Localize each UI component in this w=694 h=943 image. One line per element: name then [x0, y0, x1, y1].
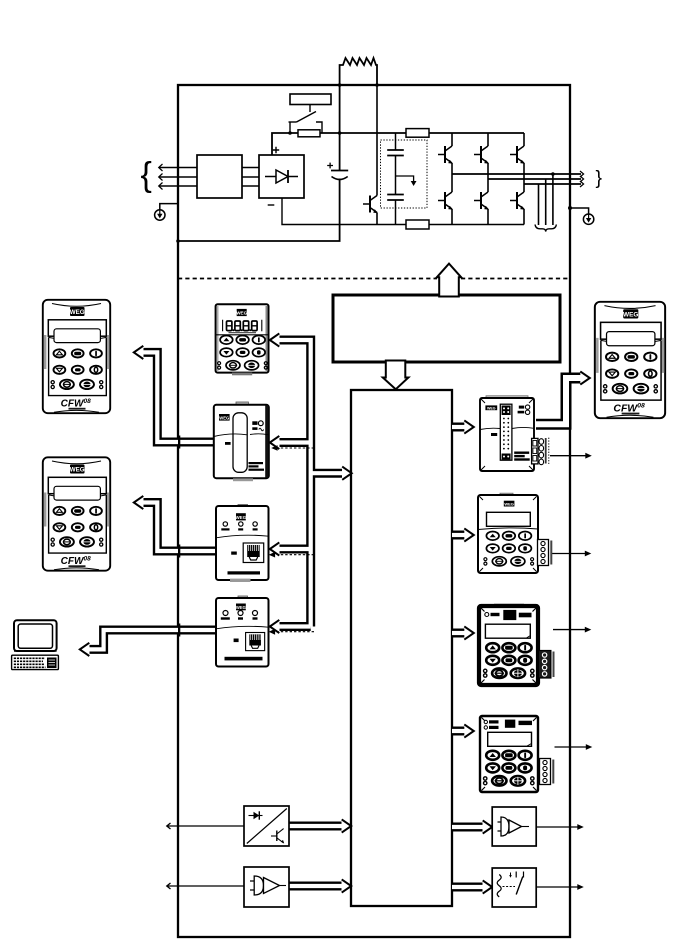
- braking module dotted box: [381, 140, 428, 208]
- rectifier diode: [265, 170, 298, 183]
- snubber resistor on DC+ rail: [406, 129, 429, 138]
- input ground wire: [160, 204, 178, 210]
- inverter leg W wires: [523, 133, 525, 225]
- arrow power supply to control board (down): [383, 361, 409, 390]
- wire remote keypad 2 path: [144, 503, 217, 552]
- motor output line U: [452, 171, 584, 177]
- arrowhead into control board (from trunk): [342, 467, 352, 480]
- hollow wire channels: black outer strokes: [90, 340, 483, 887]
- wire branch to HMI module: [280, 438, 311, 447]
- PC monitor: [14, 620, 57, 651]
- braking resistor (external, above enclosure): [340, 58, 377, 85]
- output ground wire: [570, 208, 589, 214]
- dashed thin arrows (optional connections): [278, 448, 315, 632]
- serial interface RS-232 module 4: [216, 596, 269, 667]
- hollow wire channels: white inner strokes: [90, 340, 484, 887]
- arrowhead analog input into control board: [342, 879, 352, 892]
- svg-text:WEG: WEG: [236, 515, 247, 520]
- keypad interface module B: [478, 493, 552, 573]
- arrowhead into serial HMI module: [270, 542, 280, 555]
- svg-text:WEG: WEG: [236, 311, 247, 316]
- enclosure edge over channels: [178, 436, 180, 637]
- remote keypad 2 (bottom left): [43, 457, 110, 570]
- wire control board to module D: [452, 727, 465, 736]
- inverter leg V wires: [487, 133, 489, 225]
- arrowhead into RS-232 module: [270, 620, 280, 633]
- arrowhead into parallel HMI module: [270, 436, 280, 449]
- thin output signal lines: [536, 827, 578, 887]
- wire digital input to control board: [289, 822, 342, 831]
- remote keypad right: [595, 302, 665, 418]
- keypad interface module C (dark): [479, 604, 555, 685]
- wire parallel keypad interface to right keypad: [536, 378, 582, 424]
- IGBT U bottom: [438, 192, 453, 210]
- motor cable taps: [539, 174, 553, 225]
- wire branch to RS-232 module: [280, 622, 311, 631]
- arrowhead into HMI/display module: [270, 333, 280, 346]
- arrowhead digital input into control board: [342, 819, 352, 832]
- arrowhead into relay output block: [483, 880, 493, 893]
- IGBT V bottom: [474, 192, 489, 210]
- minus sign at rectifier output: [268, 204, 275, 206]
- wire analog input to control board: [289, 882, 342, 891]
- DC bus divider capacitors: [387, 133, 404, 225]
- input ground symbol: [155, 210, 165, 220]
- serial HMI interface module 3: [216, 505, 269, 583]
- three-phase input lines: [159, 164, 197, 190]
- motor output line W: [524, 181, 584, 187]
- HMI display module 1 (local keypad): [216, 304, 269, 375]
- motor cable brace (downward): [535, 225, 556, 232]
- outer inverter enclosure: [178, 85, 570, 937]
- parallel keypad interface module A: [480, 396, 549, 471]
- precharge resistor: [298, 130, 320, 137]
- remote keypad 1 (top left): [43, 300, 110, 413]
- svg-text:WEG: WEG: [219, 415, 229, 420]
- wire branch to serial HMI module: [280, 545, 311, 554]
- arrowhead into keypad interface A: [464, 420, 474, 433]
- output ground symbol: [583, 214, 593, 224]
- svg-text:WEG: WEG: [487, 406, 496, 410]
- IGBT U top: [438, 146, 453, 164]
- wire control board to relay output: [452, 883, 483, 892]
- arrowhead toward PC: [80, 643, 90, 656]
- wire remote keypad 1 path: [144, 352, 216, 442]
- wire control board to keypad interface A: [452, 423, 465, 432]
- IGBT W bottom: [510, 192, 525, 210]
- braking IGBT Q7: [363, 196, 378, 214]
- parallel HMI interface module 2: [214, 402, 269, 481]
- three-phase input brace: [141, 156, 152, 194]
- arrowhead into analog output block: [483, 820, 493, 833]
- DC- wire from rectifier: [282, 198, 524, 225]
- keypad interface module D: [480, 716, 554, 792]
- plus sign at rectifier output: [273, 147, 279, 153]
- wires filter to rectifier: [242, 168, 259, 187]
- control board CPU block (tall): [351, 390, 452, 906]
- divider midpoint reference arrow: [396, 176, 417, 186]
- analog output block: [492, 807, 536, 846]
- wire trunk left of control board: [280, 340, 311, 627]
- wire control board to analog output: [452, 823, 483, 832]
- junction dots braking resistor legs: [338, 83, 379, 87]
- braking IGBT branch wire: [376, 85, 378, 225]
- PC keyboard: [12, 655, 59, 669]
- arrowhead into module D: [464, 724, 474, 737]
- arrowhead into right remote keypad: [580, 371, 590, 384]
- precharge relay block: [290, 94, 331, 105]
- plus sign DC bus capacitor: [327, 163, 333, 169]
- wire control board to module B: [452, 531, 465, 540]
- arrowhead toward remote keypad 2: [134, 496, 144, 509]
- relay output block: [492, 868, 536, 907]
- svg-text:}: }: [596, 167, 603, 189]
- snubber resistor on DC- rail: [406, 220, 429, 229]
- arrowhead into module C: [464, 626, 474, 639]
- DC bus capacitor branch: [178, 85, 348, 241]
- IGBT V top: [474, 146, 489, 164]
- inverter leg U wires: [451, 133, 453, 225]
- thin arrows from right modules: [550, 456, 587, 747]
- digital input block: [244, 806, 289, 846]
- motor output brace: [596, 167, 603, 189]
- hollow arrowheads: [80, 333, 590, 893]
- svg-text:WEG: WEG: [504, 501, 514, 506]
- wire PC path: [90, 630, 218, 649]
- arrowhead into module B: [464, 528, 474, 541]
- thin input signal lines: [167, 823, 244, 889]
- junction dots on DC+ rail: [288, 131, 341, 135]
- EMI filter block: [197, 155, 242, 198]
- wire control board to module C: [452, 629, 465, 638]
- rectifier block: [259, 155, 304, 198]
- svg-text:{: {: [141, 156, 152, 194]
- power/control separator dashed line: [178, 278, 570, 280]
- analog input block: [244, 867, 289, 907]
- IGBT W top: [510, 146, 525, 164]
- motor output line V: [488, 176, 584, 182]
- DC+ rail: [272, 133, 524, 155]
- svg-text:WEG: WEG: [236, 605, 246, 610]
- wire branch to control board: [311, 469, 342, 478]
- junction dot at enclosure left: [176, 239, 180, 243]
- arrow power supply to power section (up): [437, 264, 461, 297]
- control power supply block (wide): [333, 295, 560, 362]
- precharge bypass contact: [289, 105, 323, 134]
- arrowhead toward remote keypad 1: [134, 346, 144, 359]
